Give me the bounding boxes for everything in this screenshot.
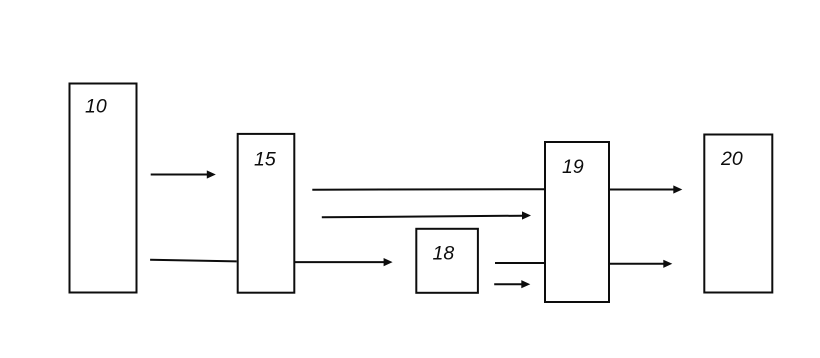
svg-text:20: 20 <box>720 148 743 170</box>
svg-text:18: 18 <box>433 243 455 265</box>
svg-text:15: 15 <box>254 149 276 171</box>
svg-text:19: 19 <box>562 156 584 178</box>
svg-text:10: 10 <box>85 96 107 118</box>
